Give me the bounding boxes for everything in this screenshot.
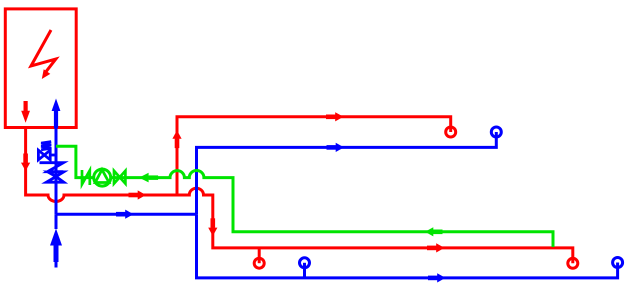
blue return pipe from boiler down through valves to junction y=214.2 <box>55 128 58 215</box>
check valve on return pipe (Z symbol) <box>40 163 64 172</box>
blue sensor circle at x=304.5 <box>300 258 310 268</box>
gate valve on pump line (green bowtie) <box>114 171 125 184</box>
flow arrow on red bottom line (right) <box>427 243 445 252</box>
pump P1 <box>94 169 111 186</box>
check valve on pump line (И symbol) <box>82 170 90 185</box>
boiler inlet arrow (blue, up) <box>52 99 61 129</box>
lightning bolt inside boiler <box>31 30 56 72</box>
red sensor circle at x=259 <box>254 258 264 268</box>
red riser x=177 up to top supply line y=116.8 ending in sensor <box>177 117 451 195</box>
blue sensor stem at x=304.5 on bottom blue line <box>303 263 306 278</box>
red sensor stem on bottom red line at x=259 <box>258 248 261 263</box>
gate valve on return pipe (vertical bowtie) <box>47 172 64 182</box>
flow arrow on red pipe below boiler (down) <box>21 154 30 172</box>
flow arrow on blue pipe y=214.2 (right) <box>116 210 134 219</box>
blue sensor circle at end of top blue line <box>491 127 501 137</box>
blue sensor circle at end of bottom blue line <box>613 258 623 268</box>
safety valve SV1 body (side bowtie) <box>38 150 50 160</box>
flow arrow on bottom blue line (right) <box>428 273 446 282</box>
green mixing circuit tap from return pipe at y=146.2 <box>56 146 93 177</box>
boiler B1 (electric heater) <box>5 9 76 128</box>
boiler outlet arrow (red, down) <box>21 101 30 123</box>
blue return riser x=196.5 and top return line y=147.1 ending in sensor <box>197 132 497 214</box>
flow arrow on top red line (right) <box>326 112 344 121</box>
red sensor circle at end of bottom red line <box>568 258 578 268</box>
flow arrow on top blue line (right) <box>327 143 345 152</box>
flow arrow on red drop x=212.5 (down) <box>208 218 217 236</box>
blue pipe junction to return riser y=214.2 <box>56 213 197 216</box>
flow arrow on red pipe y=195 (right) <box>129 190 147 199</box>
blue bottom return line y=277.9 <box>197 214 618 278</box>
flow arrow on red riser (up) <box>172 130 181 148</box>
red sensor circle at end of top red line <box>446 127 456 137</box>
flow arrow on pump line (left) <box>139 173 158 183</box>
safety valve SV1 stub to pipe <box>50 154 56 157</box>
green pipe from pump group right with hops over x=177 and x=196.5, down at x=233, along y=231.8 to x=553, down to red line <box>112 171 554 247</box>
safety valve SV1 spring <box>41 142 51 150</box>
lightning bolt arrowhead <box>42 69 51 79</box>
red supply pipe from boiler: down, right along y=195 with hop under check-valve line and over return riser, down at x=212.5, along bottom y=247.9 <box>26 128 573 264</box>
flow arrow on green bottom line (left) <box>425 227 443 236</box>
cold water supply arrow (big, up) <box>55 214 58 229</box>
